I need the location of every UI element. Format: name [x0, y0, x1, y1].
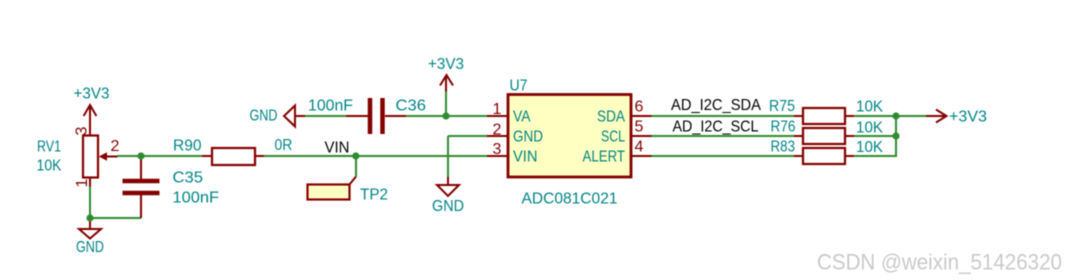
- svg-text:2: 2: [493, 122, 502, 139]
- svg-text:CSDN @weixin_51426320: CSDN @weixin_51426320: [817, 250, 1062, 275]
- svg-text:0R: 0R: [275, 137, 293, 154]
- svg-text:10K: 10K: [856, 99, 883, 116]
- svg-text:R83: R83: [771, 139, 796, 156]
- svg-text:3: 3: [493, 141, 502, 158]
- svg-text:10K: 10K: [37, 158, 62, 175]
- svg-text:TP2: TP2: [360, 187, 388, 204]
- svg-text:1: 1: [74, 178, 91, 187]
- svg-text:4: 4: [635, 139, 644, 156]
- svg-text:6: 6: [635, 99, 644, 116]
- svg-text:GND: GND: [250, 108, 278, 125]
- svg-text:AD_I2C_SDA: AD_I2C_SDA: [671, 97, 761, 114]
- svg-text:R90: R90: [173, 138, 202, 155]
- svg-text:ADC081C021: ADC081C021: [522, 191, 618, 208]
- svg-text:5: 5: [635, 119, 644, 136]
- svg-text:100nF: 100nF: [173, 190, 220, 207]
- svg-text:SDA: SDA: [597, 109, 625, 126]
- svg-text:AD_I2C_SCL: AD_I2C_SCL: [673, 119, 759, 136]
- svg-text:C36: C36: [396, 98, 427, 115]
- svg-text:GND: GND: [432, 198, 464, 215]
- svg-text:1: 1: [493, 101, 502, 118]
- svg-text:R75: R75: [769, 98, 795, 115]
- svg-text:ALERT: ALERT: [583, 149, 626, 166]
- svg-text:SCL: SCL: [601, 129, 625, 146]
- svg-text:+3V3: +3V3: [74, 86, 110, 103]
- svg-text:10K: 10K: [856, 120, 883, 137]
- svg-text:R76: R76: [771, 119, 796, 136]
- svg-text:VIN: VIN: [513, 149, 538, 166]
- svg-text:VIN: VIN: [325, 140, 350, 157]
- svg-text:RV1: RV1: [37, 139, 61, 156]
- svg-text:2: 2: [111, 138, 120, 155]
- svg-text:+3V3: +3V3: [428, 56, 464, 73]
- svg-text:GND: GND: [76, 239, 104, 256]
- svg-text:10K: 10K: [856, 139, 883, 156]
- svg-text:3: 3: [74, 126, 91, 135]
- svg-text:+3V3: +3V3: [949, 109, 987, 126]
- svg-text:VA: VA: [513, 109, 531, 126]
- svg-text:GND: GND: [513, 129, 543, 146]
- svg-text:U7: U7: [510, 78, 528, 95]
- svg-text:C35: C35: [173, 170, 204, 187]
- svg-text:100nF: 100nF: [308, 98, 353, 115]
